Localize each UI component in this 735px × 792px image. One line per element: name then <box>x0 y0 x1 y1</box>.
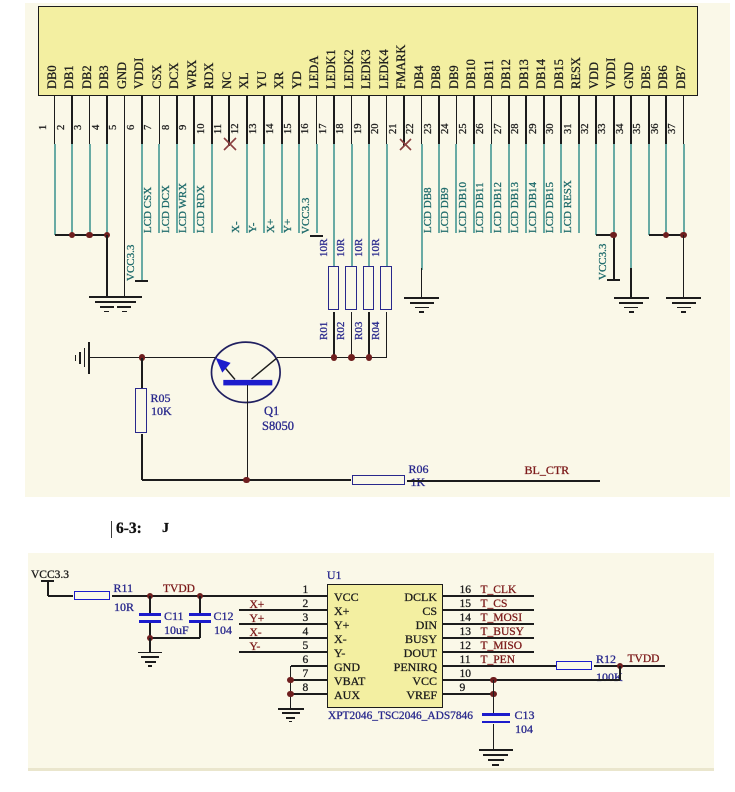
pin name label DB10 pin 25 <box>465 59 478 89</box>
U1 pin number 8 <box>303 682 309 696</box>
pin number 31 <box>564 124 575 135</box>
net label BL_CTR <box>525 463 570 477</box>
U1 left pin name VBAT <box>334 674 365 688</box>
value label 10R of R01 <box>319 239 330 257</box>
wire pin 22 vertical drop <box>421 144 423 271</box>
net label LCD DB13 <box>510 182 521 233</box>
pin number 33 <box>598 124 609 135</box>
label C13 <box>515 708 535 722</box>
wire to ground under C11 <box>149 638 151 652</box>
U1 left pin name Y+ <box>334 618 349 632</box>
power VCC3.3 label bottom <box>31 569 69 583</box>
wire pin 5 to ground <box>124 144 126 297</box>
pin name label GND pin 5 <box>116 62 129 89</box>
pin 13 stub wire <box>263 95 265 144</box>
ground under pin 34 <box>614 297 649 299</box>
U1 left pin name X- <box>334 632 347 646</box>
resistor R06 <box>352 475 406 485</box>
pin number 2 <box>57 124 68 129</box>
U1 right pin name VCC <box>412 674 437 688</box>
wire C13 top lead <box>493 680 495 713</box>
pin 15 stub wire <box>298 95 300 144</box>
net label T_CLK <box>481 584 517 598</box>
wire pin 33 vertical drop <box>613 144 615 236</box>
pin number 37 <box>668 124 679 135</box>
value label 100K of R12 <box>596 670 623 684</box>
U1 left pin name AUX <box>334 688 360 702</box>
net label T_MOSI <box>481 612 523 626</box>
wire U1 pin 10 VCC <box>443 679 621 681</box>
wire pin 3 vertical drop <box>89 144 91 236</box>
junction dot pin 3 <box>86 232 93 239</box>
pin number 14 <box>266 124 277 135</box>
U1 right pin name VREF <box>406 688 437 702</box>
net label LCD DB11 <box>475 182 486 233</box>
pin number 23 <box>424 124 435 135</box>
wire pin 29 vertical drop <box>543 144 545 234</box>
background top schematic area <box>25 3 730 497</box>
pin number 22 <box>406 124 417 135</box>
wire U1 pin 13 <box>443 637 535 639</box>
pin name label DB12 pin 27 <box>500 59 513 89</box>
U1 left pin name VCC <box>334 590 359 604</box>
junction dot R02 rail <box>348 354 355 361</box>
label R03 <box>354 322 365 340</box>
wire rail joining pins 35-37 <box>649 234 684 236</box>
wire R05 top lead <box>141 358 143 388</box>
net label LCD CSX <box>143 187 154 233</box>
ground under U1 pin 8 <box>278 708 304 710</box>
net label T_PEN <box>481 654 516 668</box>
junction dot TVDD C11 <box>147 593 154 600</box>
net label LCD WRX <box>178 183 189 233</box>
wire bottom rail <box>142 479 352 481</box>
pin 18 stub wire <box>351 95 353 144</box>
U1 right pin name DIN <box>416 618 437 632</box>
wire R06 to BL_CTR <box>407 480 601 482</box>
wire pin 25 vertical drop <box>473 144 475 234</box>
pin name label DCX pin 8 <box>168 63 181 89</box>
pin name label LEDK2 pin 18 <box>343 49 356 89</box>
wire pin 28 vertical drop <box>525 144 527 234</box>
net label Y- at U1 pin 5 <box>250 641 261 655</box>
pin 20 stub wire <box>386 95 388 144</box>
pin name label LEDA pin 16 <box>308 56 321 89</box>
label R04 <box>371 322 382 340</box>
label R05 <box>151 391 171 405</box>
no-connect X on pin 21 <box>399 138 412 151</box>
net label LCD DCX <box>161 185 172 233</box>
pin 21 stub wire <box>403 95 405 147</box>
power VCC3.3 bar pin 6 <box>135 280 148 282</box>
wire pin 26 vertical drop <box>490 144 492 234</box>
pin name label DB8 pin 23 <box>430 65 443 89</box>
label R11 <box>114 581 134 595</box>
pin number 6 <box>127 124 138 129</box>
value label 10R of R04 <box>371 239 382 257</box>
wire pin 34 to ground <box>630 268 632 297</box>
resistor R04 <box>380 266 392 310</box>
wire pin 35 vertical drop <box>648 144 650 236</box>
U1 right pin name PENIRQ <box>394 660 437 674</box>
pin number 24 <box>441 124 452 135</box>
wire U1 pin 9 VREF <box>443 693 494 695</box>
pin name label DB0 pin 1 <box>46 65 59 89</box>
U1 pin number 16 <box>460 584 472 598</box>
pin name label VDDI pin 33 <box>605 58 618 89</box>
U1 pin number 14 <box>460 612 472 626</box>
IC U1 body <box>327 584 443 708</box>
capacitor C11 <box>139 613 162 616</box>
net label T_MISO <box>481 640 523 654</box>
ground under pin 5 <box>107 296 142 298</box>
pin 1 stub wire <box>54 95 56 144</box>
wire rail joining pins 32-33 <box>596 234 614 236</box>
wire pin 33 power stub <box>613 235 615 280</box>
pin name label DB6 pin 36 <box>657 65 670 89</box>
wire pin 17 vertical drop <box>333 144 335 267</box>
U1 pin number 7 <box>303 668 309 682</box>
caption bar <box>111 521 113 538</box>
pin name label DB15 pin 30 <box>553 59 566 89</box>
pin 11 stub wire <box>228 95 230 147</box>
capacitor C13 <box>482 713 510 716</box>
wire R02 bottom lead <box>351 312 353 358</box>
wire R12 down to VCC line <box>619 666 621 680</box>
pin number 15 <box>284 124 295 135</box>
junction dot R05 top <box>139 354 146 361</box>
wire pin 14 vertical drop <box>281 144 283 234</box>
U1 pin number 9 <box>460 682 466 696</box>
pin number 29 <box>529 124 540 135</box>
pin name label RESX pin 31 <box>570 57 583 89</box>
wire C13 bottom lead <box>493 724 495 749</box>
pin 35 stub wire <box>648 95 650 144</box>
pin number 19 <box>354 124 365 135</box>
pin 12 stub wire <box>246 95 248 144</box>
U1 pin number 4 <box>303 626 309 640</box>
LCD connector J1 body <box>38 6 698 96</box>
wire C11 top lead <box>149 596 151 613</box>
net label X- at U1 pin 4 <box>250 627 262 641</box>
wire U1 pin 14 <box>443 623 535 625</box>
junction dot U1 pin 8 <box>287 691 294 698</box>
junction dot pin 33 <box>610 232 617 239</box>
pin number 35 <box>633 124 644 135</box>
pin 14 stub wire <box>281 95 283 144</box>
net label X+ <box>266 219 277 233</box>
net label T_BUSY <box>481 626 524 640</box>
net label Y- <box>248 223 259 233</box>
U1 pin number 3 <box>303 612 309 626</box>
wire pin 36 vertical drop <box>665 144 667 236</box>
wire pin 23 vertical drop <box>438 144 440 234</box>
U1 pin number 6 <box>303 654 309 668</box>
wire U1 pin 7 <box>291 679 328 681</box>
pin 31 stub wire <box>578 95 580 144</box>
pin 19 stub wire <box>368 95 370 144</box>
pin number 18 <box>336 124 347 135</box>
wire pin 27 vertical drop <box>508 144 510 234</box>
U1 right pin name BUSY <box>405 632 437 646</box>
ground under C13 <box>479 749 513 751</box>
wire pin 32 vertical drop <box>595 144 597 236</box>
wire pin 37 vertical drop <box>683 144 685 236</box>
U1 pin number 15 <box>460 598 472 612</box>
pin 7 stub wire <box>159 95 161 144</box>
pin name label RDX pin 10 <box>203 63 216 89</box>
pin 27 stub wire <box>508 95 510 144</box>
wire pin 13 vertical drop <box>263 144 265 234</box>
net label T_CS <box>481 598 508 612</box>
junction dot R01 rail <box>331 354 338 361</box>
pin number 4 <box>92 124 103 129</box>
wire rail R01-R04 to collector <box>277 357 387 359</box>
pin name label YD pin 15 <box>291 71 304 89</box>
wire R01 bottom lead <box>333 312 335 358</box>
junction dot U1 pin 7 <box>287 677 294 684</box>
wire pin 15 vertical drop <box>298 144 300 234</box>
label XPT2046_TSC2046_ADS7846 <box>328 710 473 723</box>
pin name label VDDI pin 6 <box>133 58 146 89</box>
pin number 26 <box>476 124 487 135</box>
pin name label DB1 pin 2 <box>63 65 76 89</box>
pin number 5 <box>109 124 120 129</box>
pin number 12 <box>231 124 242 135</box>
pin 28 stub wire <box>525 95 527 144</box>
wire pin 6 vertical drop <box>141 144 143 281</box>
pin name label GND pin 34 <box>623 62 636 89</box>
pin name label XL pin 12 <box>238 72 251 89</box>
pin 24 stub wire <box>456 95 458 144</box>
transistor Q1 <box>205 335 290 415</box>
junction dot VCC C13 <box>490 677 497 684</box>
wire U1 pin 16 <box>443 595 535 597</box>
label R12 <box>596 652 616 666</box>
value label 104 of C13 <box>515 722 533 736</box>
wire pin 4 vertical drop <box>106 144 108 236</box>
value label 10R of R03 <box>354 239 365 257</box>
wire U1 pin 4 <box>239 637 327 639</box>
pin 26 stub wire <box>491 95 493 144</box>
pin number 21 <box>389 124 400 135</box>
pin name label NC pin 11 <box>221 72 234 89</box>
wire U1 pin 2 <box>239 609 327 611</box>
pin 33 stub wire <box>613 95 615 144</box>
wire pin 10 vertical drop <box>211 144 213 234</box>
U1 left pin name GND <box>334 660 360 674</box>
junction dot R12 right <box>617 663 624 670</box>
wire C12 top lead <box>199 596 201 613</box>
wire R05 bottom lead <box>141 434 143 480</box>
wire pin 1 vertical drop <box>54 144 56 236</box>
wire pin 2 vertical drop <box>71 144 73 236</box>
pin 4 stub wire <box>106 95 108 144</box>
pin number 20 <box>371 124 382 135</box>
resistor R03 <box>363 266 375 310</box>
wire R03 bottom lead <box>368 312 370 358</box>
pin number 34 <box>616 124 627 135</box>
pin 30 stub wire <box>560 95 562 144</box>
pin 36 stub wire <box>665 95 667 144</box>
pin name label YU pin 13 <box>256 71 269 89</box>
pin name label DB5 pin 35 <box>640 65 653 89</box>
label R06 <box>409 462 429 476</box>
wire pin 7 vertical drop <box>158 144 160 234</box>
wire U1 pin 6 <box>291 665 328 667</box>
pin 22 stub wire <box>421 95 423 144</box>
net label TVDD <box>163 583 195 597</box>
junction dot pin 36 <box>663 232 670 239</box>
wire R04 bottom lead <box>386 312 388 358</box>
net label X+ at U1 pin 2 <box>250 599 265 613</box>
resistor R01 <box>328 266 340 310</box>
wire R12 to TVDD <box>594 665 665 667</box>
U1 pin number 12 <box>460 640 472 654</box>
pin 16 stub wire <box>316 95 318 144</box>
net label LCD DB10 <box>458 182 469 233</box>
U1 pin number 2 <box>303 598 309 612</box>
caption stroke glyph <box>162 521 169 537</box>
value label 1K of R06 <box>411 475 426 489</box>
resistor R11 <box>74 591 111 600</box>
wire U1 GND/VBAT/AUX common <box>290 666 292 708</box>
ground under pin 37 <box>666 297 701 299</box>
pin name label FMARK pin 21 <box>395 45 408 89</box>
wire U1 pin 3 <box>239 623 327 625</box>
U1 left pin name Y- <box>334 646 345 660</box>
pin number 9 <box>179 124 190 129</box>
wire pin 16 vertical drop <box>316 144 318 234</box>
pin name label DB3 pin 4 <box>98 65 111 89</box>
pin name label LEDK4 pin 20 <box>378 49 391 89</box>
wire pin 22 to ground <box>421 268 423 297</box>
value label 10R of R02 <box>336 239 347 257</box>
net label TVDD right <box>628 653 660 667</box>
net label LCD DB12 <box>493 182 504 233</box>
net label Y+ <box>283 219 294 233</box>
U1 pin number 10 <box>460 668 472 682</box>
pin name label LEDK3 pin 19 <box>360 49 373 89</box>
junction dot Q1 base at rail <box>243 477 250 484</box>
label C11 <box>164 609 184 623</box>
pin name label VDD pin 32 <box>588 62 601 89</box>
pin number 36 <box>651 124 662 135</box>
net label LCD DB9 <box>440 187 451 233</box>
pin number 25 <box>459 124 470 135</box>
ground under C11 <box>138 652 163 654</box>
pin 17 stub wire <box>333 95 335 144</box>
wire U1 pin 11 to R12 <box>443 665 557 667</box>
wire pin 19 vertical drop <box>368 144 370 267</box>
power VCC3.3 bar pin 16 <box>310 235 323 237</box>
pin 8 stub wire <box>176 95 178 144</box>
pin number 28 <box>511 124 522 135</box>
resistor R02 <box>345 266 357 310</box>
pin 10 stub wire <box>211 95 213 144</box>
wire pin 31 vertical drop <box>578 144 580 234</box>
junction dot pin 2 <box>69 232 76 239</box>
resistor R05 <box>135 388 147 433</box>
wire ground to Q1 emitter <box>89 357 217 359</box>
pin number 7 <box>144 124 155 129</box>
junction dot TVDD C12 <box>197 593 204 600</box>
wire U1 pin 15 <box>443 609 535 611</box>
pin number 1 <box>39 124 50 129</box>
wire pin 8 vertical drop <box>176 144 178 234</box>
pin name label DB13 pin 28 <box>518 59 531 89</box>
pin name label DB7 pin 37 <box>675 65 688 89</box>
pin 5 stub wire <box>124 95 126 144</box>
net label LCD DB8 <box>423 187 434 233</box>
label Q1 <box>264 404 279 419</box>
pin 29 stub wire <box>543 95 545 144</box>
pin 23 stub wire <box>438 95 440 144</box>
wire U1 pin 8 <box>291 693 328 695</box>
wire pin 34 vertical drop <box>630 144 632 271</box>
value label S8050 of Q1 <box>262 419 294 434</box>
pin number 11 <box>214 124 225 134</box>
pin number 3 <box>74 124 85 129</box>
U1 pin number 1 <box>303 584 309 598</box>
junction dot pin 4 <box>104 232 111 239</box>
wire pin 12 vertical drop <box>246 144 248 234</box>
wire Q1 collector to rail <box>276 357 278 359</box>
background bottom schematic area <box>28 553 714 771</box>
pin name label CSX pin 7 <box>151 65 164 89</box>
U1 right pin name CS <box>422 604 437 618</box>
wire pin 37 to ground <box>683 235 685 297</box>
ground under pin 22 <box>404 297 439 299</box>
pin 3 stub wire <box>89 95 91 144</box>
junction dot VREF C13 <box>490 691 497 698</box>
pin number 10 <box>197 124 208 135</box>
pin 25 stub wire <box>473 95 475 144</box>
label R02 <box>336 322 347 340</box>
wire pin 20 vertical drop <box>386 144 388 267</box>
wire pin 30 vertical drop <box>560 144 562 234</box>
pin number 32 <box>581 124 592 135</box>
wire pin 24 vertical drop <box>455 144 457 234</box>
junction dot C11 ground <box>147 635 154 642</box>
pin name label WRX pin 9 <box>186 60 199 89</box>
pin name label XR pin 14 <box>273 72 286 89</box>
value label 10R of R11 <box>114 600 134 614</box>
value label 10uF of C11 <box>164 623 189 637</box>
wire U1 pin 12 <box>443 651 535 653</box>
pin number 13 <box>249 124 260 135</box>
capacitor C12 <box>189 613 212 616</box>
junction dot R03 rail <box>366 354 373 361</box>
label R01 <box>319 322 330 340</box>
wire VCC3.3 down <box>47 581 49 596</box>
net label LCD RDX <box>196 185 207 233</box>
pin 9 stub wire <box>193 95 195 144</box>
pin name label DB14 pin 29 <box>535 59 548 89</box>
wire pin 18 vertical drop <box>351 144 353 267</box>
label C12 <box>214 609 234 623</box>
net label Y+ at U1 pin 3 <box>250 613 265 627</box>
U1 pin number 5 <box>303 640 309 654</box>
pin name label LEDK1 pin 17 <box>325 49 338 89</box>
wire C12 bottom lead <box>199 623 201 638</box>
ground under pin 4 <box>89 296 124 298</box>
pin number 27 <box>494 124 505 135</box>
wire C11 bottom lead <box>149 623 151 638</box>
value label 10K of R05 <box>151 404 172 418</box>
U1 right pin name DOUT <box>404 646 437 660</box>
net label LCD DB14 <box>528 182 539 233</box>
